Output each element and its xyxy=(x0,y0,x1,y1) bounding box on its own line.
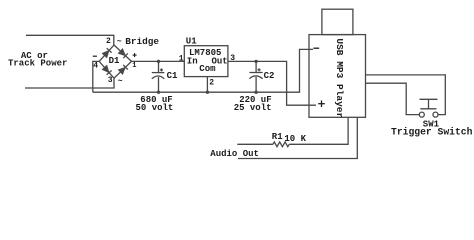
wire switch upper from MP3 right edge xyxy=(366,75,446,115)
node label AC or Track Power xyxy=(8,51,67,69)
wire ground rail to MP3 minus xyxy=(93,49,313,92)
svg-text:C2: C2 xyxy=(264,71,275,81)
svg-text:Bridge: Bridge xyxy=(125,36,159,47)
diode D1a top-left xyxy=(103,48,112,57)
svg-text:2: 2 xyxy=(209,79,214,88)
node C1 bottom junction xyxy=(157,91,160,94)
switch SW1 contact right xyxy=(433,112,438,117)
node C2 bottom junction xyxy=(254,91,257,94)
svg-text:U1: U1 xyxy=(186,37,197,47)
wire U1 Out to MP3 plus xyxy=(228,61,316,105)
diode D1c bottom-left xyxy=(103,66,112,75)
node C2 top junction xyxy=(254,60,257,63)
capacitor C1 xyxy=(152,61,165,92)
svg-text:D1: D1 xyxy=(109,56,120,66)
op-amp U1 LM7805 regulator box xyxy=(184,46,228,77)
wire bridge minus (pin 4) stub and drop to ground rail xyxy=(93,61,99,92)
svg-text:USB MP3 Player: USB MP3 Player xyxy=(334,38,345,118)
resistor R1 zigzag xyxy=(273,142,289,147)
wire R1 audio line to MP3 bottom xyxy=(237,143,273,145)
wire AC top from source to bridge pin 2 xyxy=(26,35,114,45)
svg-text:Trigger Switch: Trigger Switch xyxy=(391,126,473,137)
MP3 plus terminal mark xyxy=(318,100,325,107)
switch SW1 plunger xyxy=(420,99,438,109)
svg-text:Track Power: Track Power xyxy=(8,59,67,69)
svg-text:Com: Com xyxy=(199,64,216,74)
diode D1d bottom-right xyxy=(119,65,128,74)
svg-text:3: 3 xyxy=(108,76,113,85)
bridge rectifier D1 diamond outline xyxy=(99,45,131,78)
wire U1 pin 2 to ground rail xyxy=(206,77,208,93)
pin 4 minus mark xyxy=(93,55,97,57)
svg-text:25 volt: 25 volt xyxy=(234,103,272,113)
svg-text:~: ~ xyxy=(117,37,122,46)
switch SW1 contact left xyxy=(419,112,424,117)
pin 1 plus mark xyxy=(133,53,137,57)
MP3 minus terminal mark xyxy=(313,47,319,49)
USB plug box xyxy=(322,9,353,34)
svg-text:C1: C1 xyxy=(167,71,178,81)
svg-text:Audio Out: Audio Out xyxy=(210,149,259,159)
node U1 pin2 junction xyxy=(206,91,209,94)
svg-text:In: In xyxy=(187,57,198,67)
wire audio ground to MP3 bottom xyxy=(238,117,357,158)
svg-text:2: 2 xyxy=(106,37,111,46)
USB MP3 Player box xyxy=(309,35,366,118)
svg-text:~: ~ xyxy=(118,77,123,86)
svg-text:50 volt: 50 volt xyxy=(136,103,174,113)
svg-text:10 K: 10 K xyxy=(284,134,306,144)
svg-text:3: 3 xyxy=(230,54,235,63)
wire R1 right to MP3 box bottom xyxy=(289,117,348,144)
svg-text:4: 4 xyxy=(93,62,98,71)
svg-text:1: 1 xyxy=(179,55,184,64)
wire switch lower from MP3 right edge xyxy=(366,83,420,114)
diode D1b top-right xyxy=(119,49,128,58)
svg-text:1: 1 xyxy=(132,62,136,70)
wire bridge plus (pin 1) to U1 In xyxy=(132,60,185,62)
wire AC bottom from source to bridge pin 3 xyxy=(25,78,114,88)
svg-text:R1: R1 xyxy=(272,132,283,142)
capacitor C2 xyxy=(249,61,262,92)
node C1 top junction xyxy=(157,60,160,63)
